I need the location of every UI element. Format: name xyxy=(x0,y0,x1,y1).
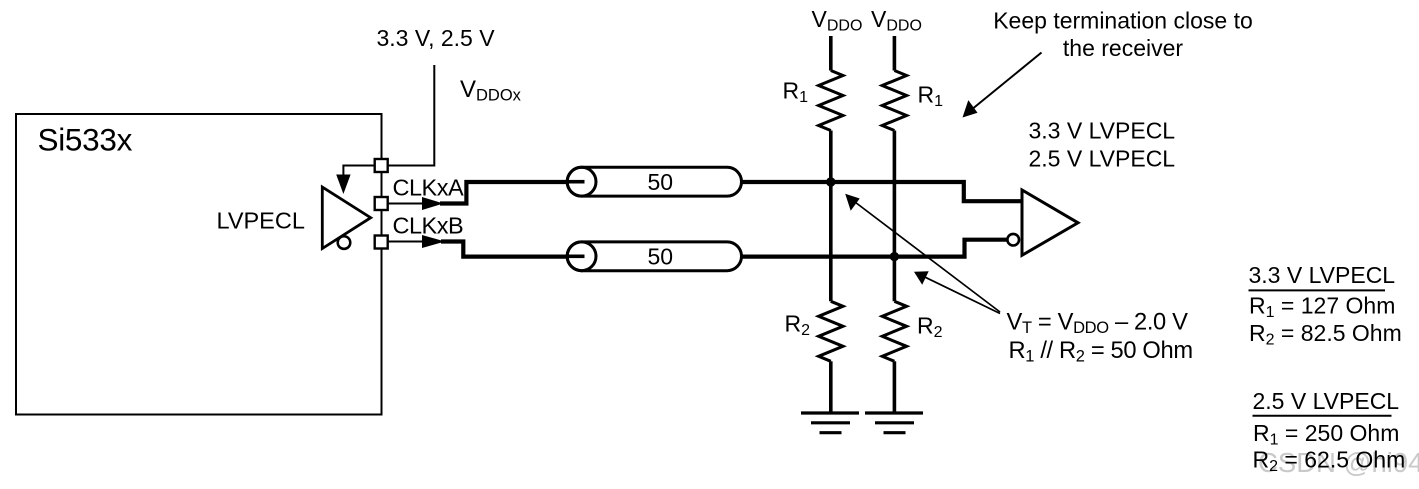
resistor R2 (left) zigzag xyxy=(819,301,843,361)
wire pin2 out xyxy=(388,203,424,205)
junction node A xyxy=(826,177,835,186)
wire thick CLKxA to line xyxy=(440,182,570,204)
op-amp U1 driver triangle xyxy=(322,187,370,248)
T1 left circle xyxy=(567,167,596,196)
rail 2 top xyxy=(893,36,897,71)
T2 stub xyxy=(569,254,585,258)
svg-text:R1 // R2 = 50 Ohm: R1 // R2 = 50 Ohm xyxy=(1009,338,1193,366)
svg-text:50: 50 xyxy=(648,244,674,270)
svg-text:Keep termination close to: Keep termination close to xyxy=(993,7,1253,33)
resistor R1 (right) zigzag xyxy=(882,71,906,131)
rail 1 top xyxy=(829,36,833,71)
wire pin3 out xyxy=(388,241,424,243)
svg-text:2.5 V LVPECL: 2.5 V LVPECL xyxy=(1253,388,1400,414)
transmission line T2 body xyxy=(567,242,741,271)
svg-text:LVPECL: LVPECL xyxy=(217,208,305,234)
svg-text:2.5 V LVPECL: 2.5 V LVPECL xyxy=(1029,145,1176,171)
arrowhead CLKxB xyxy=(422,235,445,248)
wire top line to receiver xyxy=(742,182,1022,201)
svg-text:3.3 V LVPECL: 3.3 V LVPECL xyxy=(1029,118,1176,144)
svg-text:Si533x: Si533x xyxy=(38,122,133,158)
svg-text:3.3 V LVPECL: 3.3 V LVPECL xyxy=(1249,262,1396,288)
arrowhead of note arrow xyxy=(963,100,978,117)
rail 1 middle xyxy=(829,131,833,302)
pin square 2 xyxy=(375,197,388,210)
arrowhead CLKxA xyxy=(422,197,444,210)
pointer line to node A xyxy=(851,199,1000,312)
junction node B xyxy=(890,252,899,261)
pointer line to node B xyxy=(920,275,1000,314)
svg-text:CLKxA: CLKxA xyxy=(393,174,464,200)
rail 2 bottom xyxy=(893,361,897,412)
arrowhead into driver xyxy=(336,175,350,195)
rail 2 middle xyxy=(893,131,897,302)
T1 stub xyxy=(569,180,585,184)
transmission line T1 body xyxy=(567,167,741,196)
wire VDDOx feed xyxy=(388,65,434,166)
wire from pin1 to driver top xyxy=(343,166,374,178)
svg-text:the receiver: the receiver xyxy=(1063,35,1184,61)
resistor R2 (right) zigzag xyxy=(882,301,906,361)
arrow from note xyxy=(968,53,1042,113)
ground 1 xyxy=(801,413,859,433)
svg-text:CLKxB: CLKxB xyxy=(393,212,464,238)
wire bottom line to receiver xyxy=(742,240,1008,257)
pin square 3 xyxy=(375,236,388,249)
pin square 1 xyxy=(375,159,388,172)
resistor R1 (left) zigzag xyxy=(819,71,843,131)
inversion bubble on driver xyxy=(338,236,351,249)
IC box Si533x xyxy=(16,114,382,415)
arrowhead to node A xyxy=(845,194,860,211)
svg-text:3.3 V, 2.5 V: 3.3 V, 2.5 V xyxy=(377,25,496,51)
op-amp U2 receiver triangle xyxy=(1022,190,1078,255)
table 2.5V underline xyxy=(1253,415,1392,417)
table 3.3V underline xyxy=(1249,289,1386,291)
arrowhead to node B xyxy=(914,271,929,285)
rail 1 bottom xyxy=(829,361,833,412)
wire thick CLKxB to line xyxy=(441,242,570,257)
ground 2 xyxy=(865,413,923,433)
T2 left circle xyxy=(567,242,596,271)
inversion bubble on receiver xyxy=(1007,234,1019,246)
svg-text:50: 50 xyxy=(648,169,674,195)
